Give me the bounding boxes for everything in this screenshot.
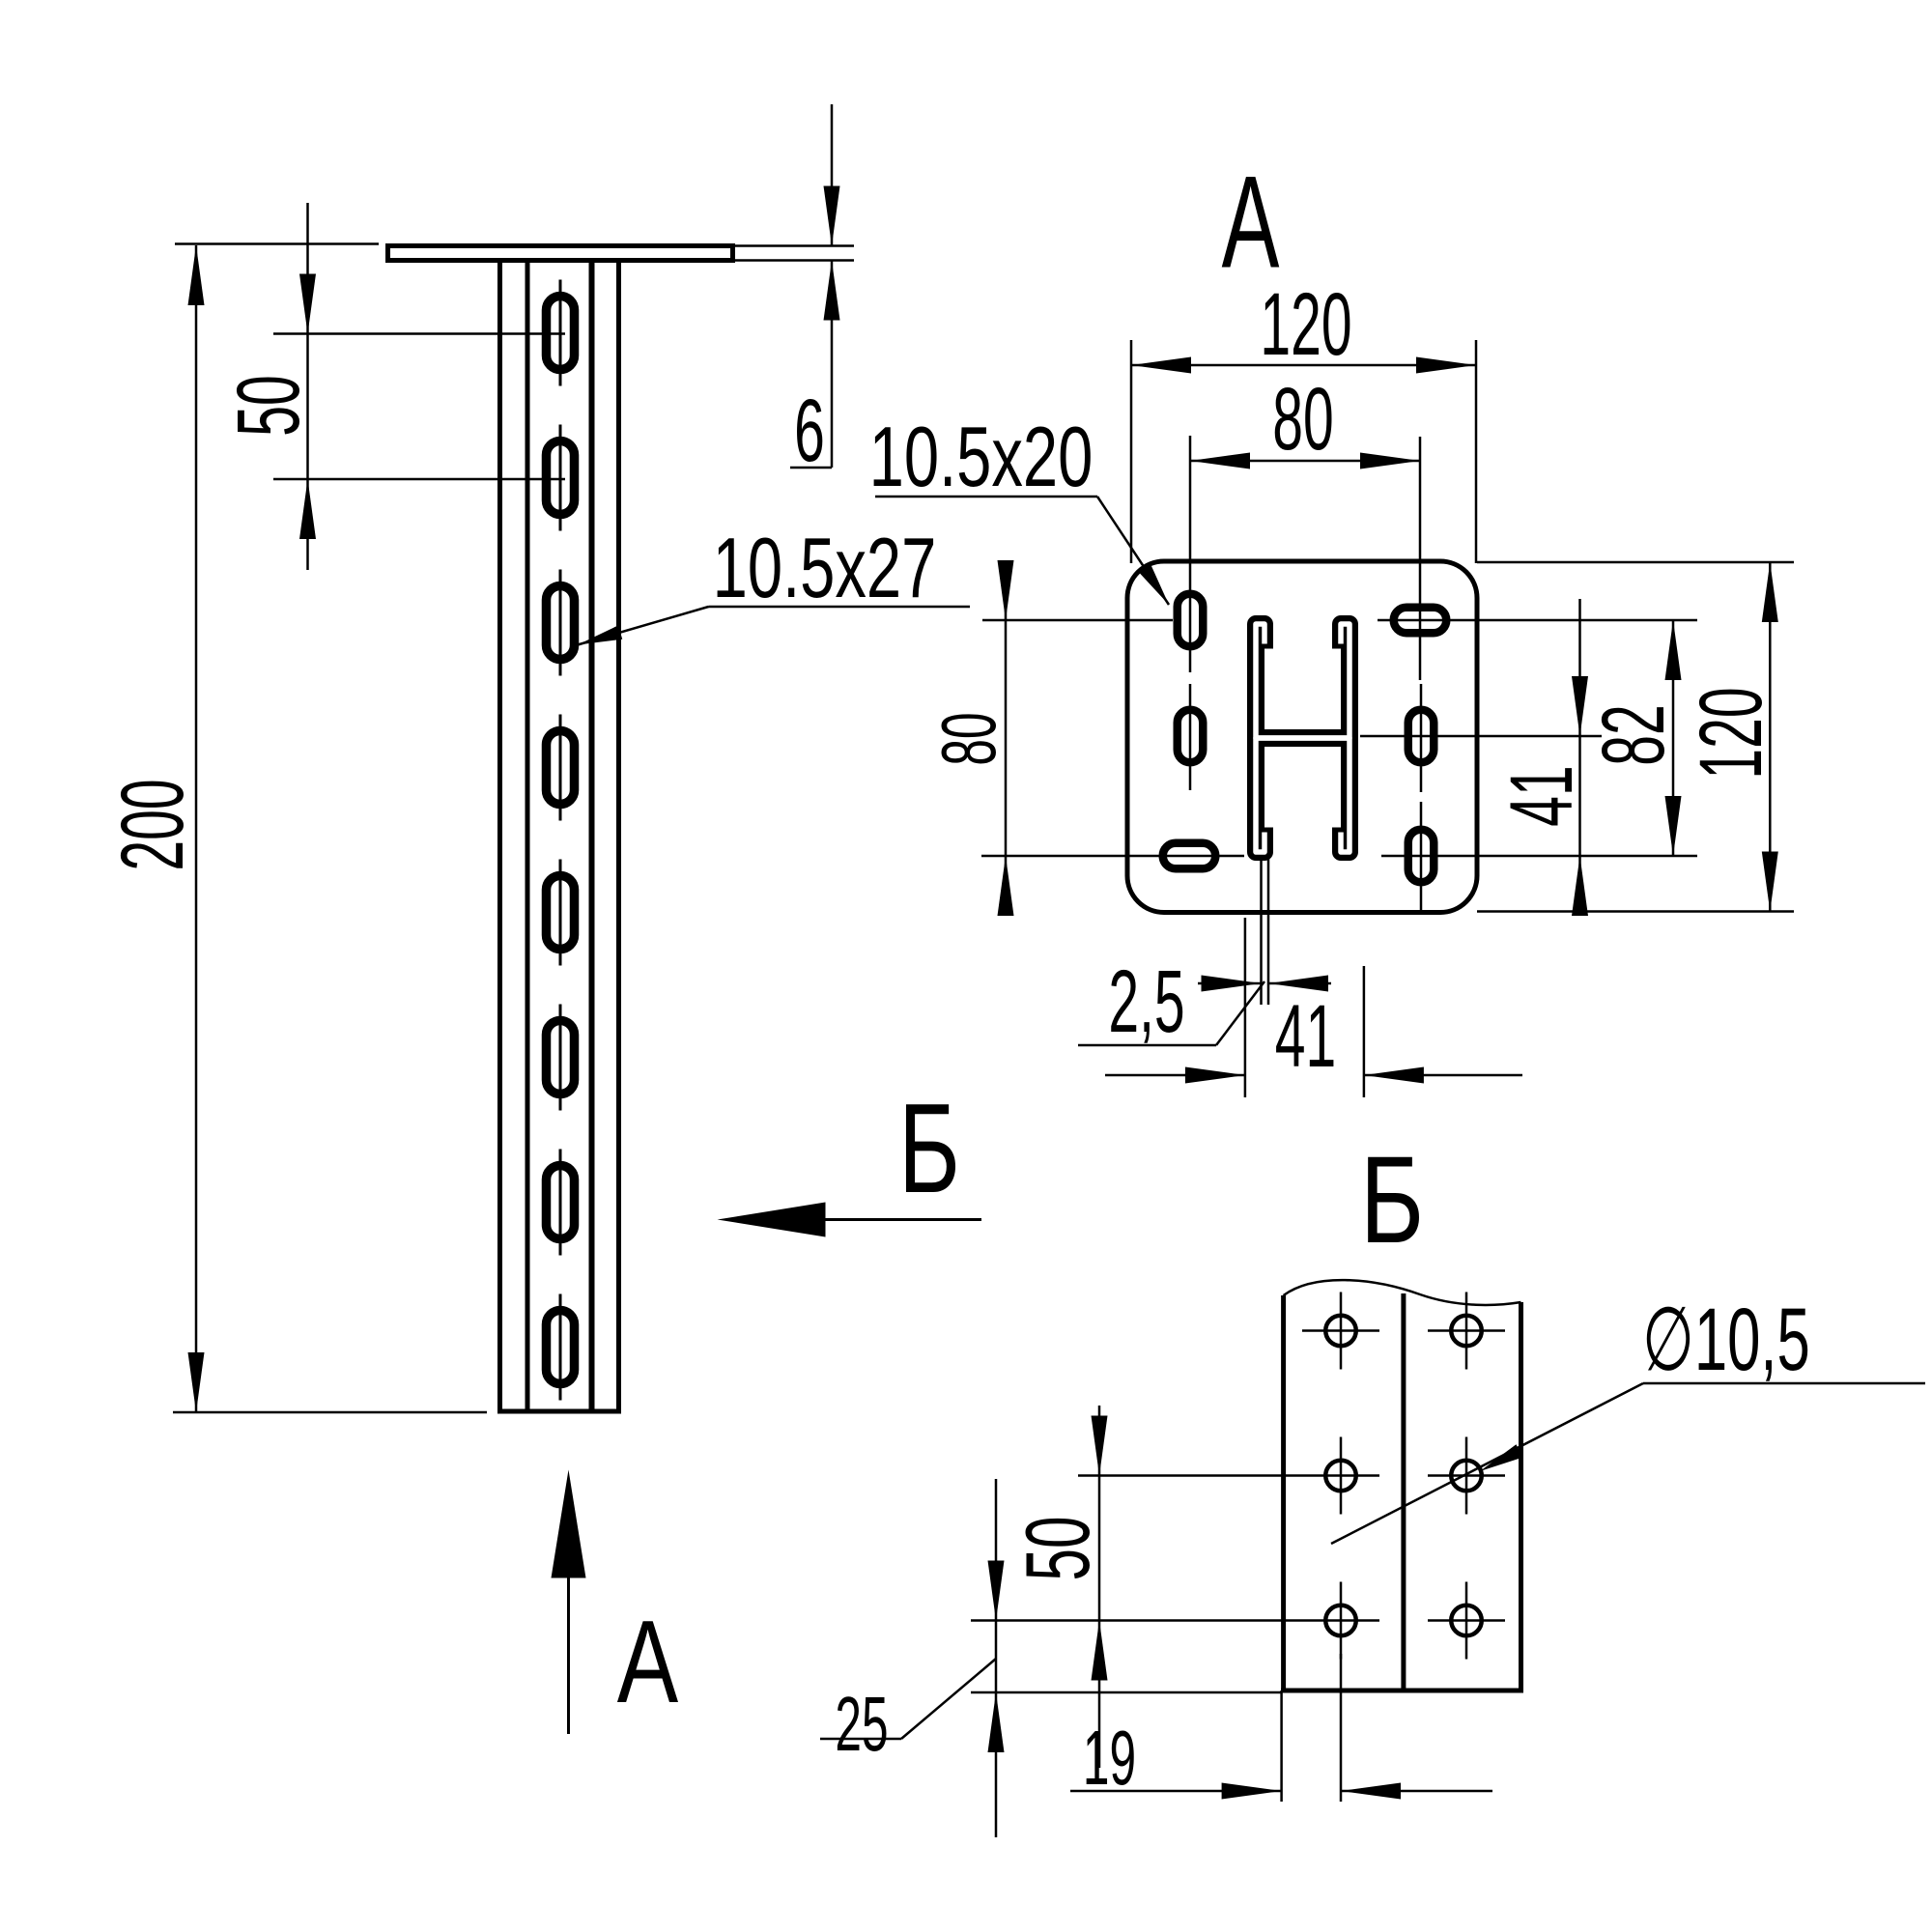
svg-text:25: 25 xyxy=(835,1682,888,1768)
svg-text:200: 200 xyxy=(103,779,202,870)
svg-text:50: 50 xyxy=(1007,1517,1108,1581)
svg-text:2,5: 2,5 xyxy=(1108,952,1184,1051)
svg-text:50: 50 xyxy=(219,375,318,436)
svg-text:82: 82 xyxy=(1584,704,1683,765)
svg-text:41: 41 xyxy=(1492,765,1591,826)
svg-text:10.5x20: 10.5x20 xyxy=(869,411,1094,505)
svg-text:∅10,5: ∅10,5 xyxy=(1642,1290,1810,1389)
svg-text:А: А xyxy=(1222,150,1280,296)
svg-text:80: 80 xyxy=(926,712,1012,765)
svg-text:41: 41 xyxy=(1275,987,1336,1086)
svg-text:Б: Б xyxy=(898,1077,960,1220)
svg-text:6: 6 xyxy=(794,382,825,480)
svg-text:19: 19 xyxy=(1083,1716,1136,1802)
svg-text:А: А xyxy=(617,1597,678,1728)
svg-text:80: 80 xyxy=(1272,370,1333,469)
svg-text:10.5x27: 10.5x27 xyxy=(713,522,937,616)
svg-text:120: 120 xyxy=(1682,687,1780,779)
svg-text:120: 120 xyxy=(1260,275,1351,374)
svg-text:Б: Б xyxy=(1360,1132,1424,1269)
